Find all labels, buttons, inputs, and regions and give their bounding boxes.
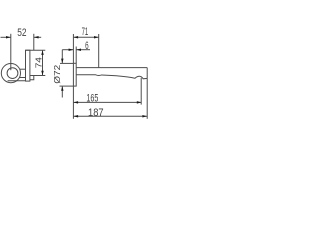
dimension 71 line with inside arrows [74,36,99,39]
dimension 187 line with inside arrows [74,115,148,118]
extension line 74 bottom [30,75,45,77]
diameter 72 dimension lower arrow [61,86,64,97]
extension line 6 right (escutcheon back face) [75,47,77,64]
diameter 72 dimension upper arrow (corner with 6 dim) [61,50,64,64]
svg-text:165: 165 [86,93,98,105]
spout underside with aerator bump [76,75,147,79]
extension line 74 top (plate top edge extended) [26,49,46,51]
extension line 52 left [10,34,12,70]
svg-text:74: 74 [35,56,44,68]
dimension 74 line with inside arrows [41,50,44,75]
extension line d72 bottom [60,85,74,87]
svg-text:71: 71 [82,26,89,38]
svg-text:6: 6 [85,40,89,52]
extension line 187 right (spout tip) [146,78,148,118]
handle neck top [20,68,26,70]
right escutcheon plate (edge view) [73,63,76,86]
extension line 71/6 left (escutcheon front face) [72,34,74,63]
svg-text:187: 187 [88,107,104,119]
svg-text:52: 52 [17,27,26,39]
svg-text:Ø72: Ø72 [53,64,62,84]
spout top edge [76,67,147,69]
handle neck bottom [20,77,26,79]
handle knob outer circle (side view) [1,64,20,83]
dimension 6 right tail with arrow [76,48,90,51]
extension line 187/165 left (escutcheon front below) [72,86,74,119]
dimension 165 line with inside arrows [74,101,142,104]
dimension 52 line left segment with arrow [1,36,11,39]
extension line 165 right (aerator) [140,78,142,105]
extension line d72 top [60,62,73,64]
handle lower chord line [8,80,26,82]
extension line 52 right (wall plane) [33,34,35,50]
dimension 52 line right segment with arrow [34,36,41,39]
handle knob inner circle [7,68,18,79]
left escutcheon plate (edge view) [26,50,30,81]
spout tip vertical edge [146,68,148,79]
extension line 71 right (wall line) [98,34,100,68]
wall-side box behind plate [30,76,34,80]
dimension 6 left tail with arrow [62,48,73,51]
